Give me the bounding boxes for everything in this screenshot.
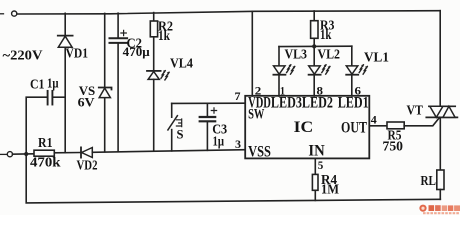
- svg-text:470k: 470k: [30, 155, 61, 170]
- svg-text:R1: R1: [38, 135, 53, 150]
- LED VL2: [313, 46, 315, 65]
- svg-text:LED3: LED3: [271, 95, 302, 112]
- wire C1 branch vertical: [26, 97, 47, 154]
- svg-text:S: S: [177, 127, 184, 142]
- resistor R2: [150, 21, 157, 37]
- junction node lower-left: [24, 152, 28, 156]
- watermark: [419, 205, 460, 214]
- svg-text:4: 4: [371, 113, 377, 127]
- wire switch-C3 top rail: [172, 102, 246, 104]
- svg-text:VL3: VL3: [285, 48, 308, 63]
- wire R2 branch top: [153, 13, 155, 21]
- resistor R3: [311, 21, 318, 39]
- wire R1 to VD2: [55, 152, 81, 154]
- svg-text:VSS: VSS: [248, 144, 271, 161]
- svg-text:VT: VT: [407, 104, 424, 119]
- svg-text:VD1: VD1: [66, 47, 89, 62]
- wire IN pin5 to R4: [314, 158, 316, 174]
- wire C3 branch bottom: [206, 122, 208, 151]
- wire VD1 branch: [64, 13, 66, 152]
- svg-text:OUT: OUT: [341, 120, 368, 137]
- svg-text:VL4: VL4: [170, 57, 193, 72]
- wire C2 branch top: [117, 13, 119, 38]
- IC box: [245, 96, 369, 159]
- svg-text:VL2: VL2: [318, 48, 341, 63]
- wire C1 to VD1 branch: [53, 96, 65, 98]
- terminal upper-left: [0, 13, 4, 15]
- svg-text:1M: 1M: [321, 183, 339, 198]
- svg-text:3: 3: [235, 137, 241, 151]
- svg-text:RL: RL: [421, 174, 437, 189]
- wire VL4 to rail: [153, 79, 155, 151]
- wire VS branch: [104, 13, 106, 151]
- svg-text:~220V: ~220V: [3, 49, 43, 64]
- wire C3 branch top: [206, 103, 208, 117]
- svg-text:VL1: VL1: [364, 51, 389, 66]
- svg-text:5: 5: [318, 158, 324, 172]
- capacitor C3: [200, 116, 216, 118]
- svg-text:IC: IC: [294, 119, 314, 136]
- svg-text:7: 7: [235, 89, 241, 103]
- capacitor C1: [47, 91, 49, 105]
- switch S: [171, 103, 173, 117]
- resistor RL: [437, 170, 444, 190]
- wire R3 branch top: [313, 11, 315, 21]
- svg-text:1μ: 1μ: [47, 77, 59, 92]
- svg-text:LED1: LED1: [338, 95, 369, 112]
- wire R5 to triac gate: [404, 117, 439, 125]
- svg-text:1k: 1k: [320, 28, 332, 43]
- triac VT: [429, 105, 455, 107]
- diode VD2: [80, 147, 82, 157]
- wire C2 branch bottom: [117, 43, 119, 151]
- svg-text:1k: 1k: [158, 29, 170, 44]
- wire OUT pin4: [369, 125, 387, 127]
- wire VD2 to VSS rail: [92, 150, 245, 153]
- wire top rail: [17, 11, 440, 14]
- wire R3 to LED rail: [313, 38, 315, 46]
- wire bottom rail: [26, 154, 440, 203]
- capacitor C2: [110, 37, 128, 39]
- terminal lower-left: [0, 153, 7, 155]
- svg-text:470μ: 470μ: [123, 44, 151, 59]
- svg-text:VD2: VD2: [77, 159, 98, 174]
- svg-text:LED2: LED2: [302, 95, 333, 112]
- svg-text:C1: C1: [30, 78, 45, 93]
- resistor R4: [312, 174, 318, 190]
- wire R4 to bottom rail: [314, 190, 316, 200]
- zener VS: [99, 88, 112, 90]
- wire R2 to VL4: [153, 37, 155, 71]
- wire LED top rail: [279, 45, 352, 47]
- wire RL to bottom rail: [439, 190, 441, 200]
- diode VD1: [58, 35, 73, 37]
- resistor R5: [387, 122, 404, 129]
- wire pin2 VDD: [251, 12, 253, 97]
- wire lower-left rail: [13, 153, 34, 155]
- wire triac to RL: [439, 117, 441, 170]
- LED VL1: [351, 46, 353, 65]
- svg-text:SW: SW: [248, 107, 264, 123]
- junction node below R3: [312, 44, 316, 48]
- wire right vertical: [439, 11, 441, 107]
- svg-text:6V: 6V: [78, 94, 96, 109]
- LED VL4: [147, 70, 161, 72]
- svg-text:1μ: 1μ: [213, 134, 225, 149]
- resistor R1: [34, 150, 54, 156]
- svg-text:IN: IN: [308, 143, 324, 160]
- LED VL3: [278, 47, 280, 66]
- svg-text:750: 750: [383, 139, 404, 154]
